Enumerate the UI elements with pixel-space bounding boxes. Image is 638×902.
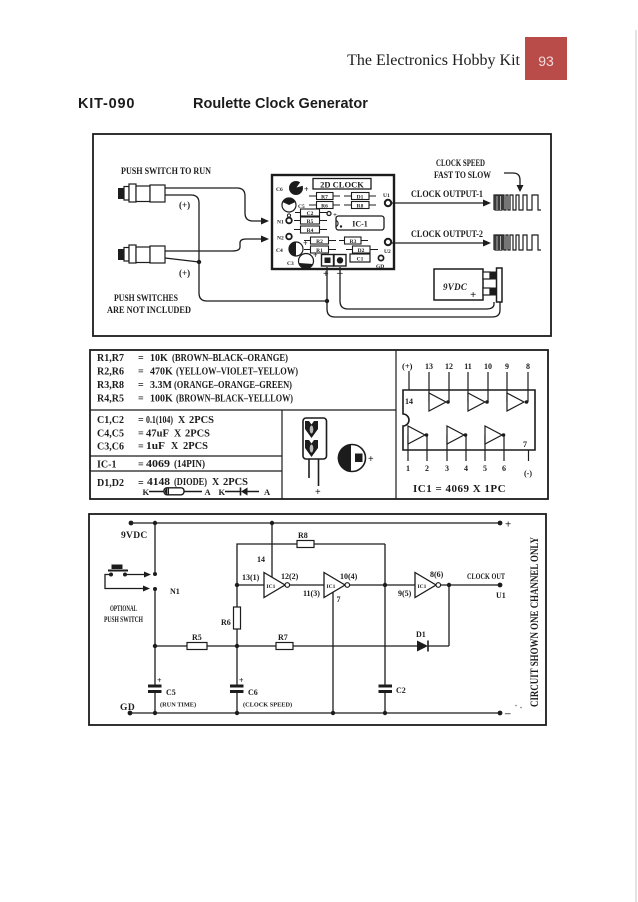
svg-text:=: = — [138, 460, 144, 471]
svg-text:470K: 470K — [150, 367, 173, 378]
svg-text:N2: N2 — [277, 236, 284, 242]
wire U2 to waveform 2 — [391, 240, 491, 247]
node clock out terminal — [467, 572, 506, 600]
wire: SW2 to N2 pad — [165, 239, 261, 251]
wire: SW1 to N1 pad — [165, 188, 261, 221]
svg-text:CLOCK OUTPUT-1: CLOCK OUTPUT-1 — [411, 189, 483, 199]
push switch SW2 — [119, 245, 166, 263]
svg-text:GD: GD — [376, 264, 384, 270]
resistor R6 on PCB — [309, 202, 340, 210]
resistor R7 — [237, 633, 417, 650]
capacitor C6 — [230, 676, 292, 713]
svg-text:8: 8 — [526, 362, 530, 371]
junction ground pin7 — [331, 711, 335, 715]
svg-text:93: 93 — [538, 53, 554, 69]
node ground left terminal — [128, 711, 133, 716]
svg-text:2PCS: 2PCS — [223, 477, 248, 488]
electrolytic capacitor drawing — [303, 418, 327, 498]
wire push button left contact hook arrow — [105, 575, 150, 592]
svg-text:(14PIN): (14PIN) — [174, 459, 205, 470]
svg-text:14: 14 — [405, 397, 413, 406]
junction switch common — [197, 260, 201, 264]
svg-text:3: 3 — [445, 464, 449, 473]
arrowhead into N1 — [261, 218, 269, 225]
parts row C3,C6 — [97, 441, 208, 453]
wire push button right contact arrow — [127, 572, 151, 578]
resistor R8 — [297, 531, 385, 548]
label N1 — [170, 587, 180, 596]
svg-text:11(3): 11(3) — [303, 589, 320, 598]
svg-text:R3: R3 — [350, 239, 357, 245]
wire pin7 ground — [333, 592, 341, 713]
parts row R2,R6 — [97, 367, 298, 378]
svg-text:CLOCK OUT: CLOCK OUT — [467, 572, 506, 581]
resistor R2 on PCB — [304, 237, 336, 245]
svg-text:C3,C6: C3,C6 — [97, 442, 124, 453]
pad U1 — [383, 193, 391, 206]
svg-text:C4,C5: C4,C5 — [97, 429, 124, 440]
wire: plus pad to battery — [327, 267, 500, 317]
battery 9VDC — [434, 269, 490, 301]
figure 3 border — [89, 514, 546, 725]
svg-text:KIT-090: KIT-090 — [78, 96, 135, 112]
wire N1 upper segment — [154, 523, 156, 572]
inverter gate 13-12 — [429, 393, 450, 411]
inverter gate 9-8 — [507, 393, 528, 411]
junction plus pad / switch common — [325, 299, 329, 303]
svg-text:D1,D2: D1,D2 — [97, 478, 124, 489]
svg-text:(BROWN–BLACK–YELLLOW): (BROWN–BLACK–YELLLOW) — [176, 394, 293, 405]
waveform clock output 2 — [494, 235, 541, 250]
minus terminal pad — [334, 255, 346, 267]
svg-text:=: = — [138, 442, 144, 453]
parts row C1,C2 — [97, 415, 214, 426]
diode D1 on PCB — [344, 193, 376, 201]
parts row R1,R7 — [97, 353, 288, 364]
svg-text:R8: R8 — [298, 531, 308, 540]
svg-text:A: A — [264, 487, 271, 497]
junction ground C2 — [383, 711, 387, 715]
PCB board 2D CLOCK — [272, 175, 394, 269]
junction ground C6 — [235, 711, 239, 715]
svg-text:IC-1: IC-1 — [352, 220, 368, 229]
page edge scan artifact — [635, 30, 637, 902]
svg-text:CLOCK SPEED: CLOCK SPEED — [436, 158, 485, 168]
svg-text:3.3M: 3.3M — [150, 380, 173, 391]
inverter gate 11-10 — [468, 393, 489, 411]
inverter gate U1b — [324, 572, 358, 598]
junction N1/R5 — [153, 644, 157, 648]
svg-text:8(6): 8(6) — [430, 570, 444, 579]
svg-text:R4: R4 — [307, 228, 314, 234]
wire U1 to waveform 1 — [391, 200, 491, 207]
svg-text:(BROWN–BLACK–ORANGE): (BROWN–BLACK–ORANGE) — [172, 353, 288, 364]
svg-text:ARE NOT INCLUDED: ARE NOT INCLUDED — [107, 306, 191, 316]
battery clip — [490, 268, 502, 302]
svg-text:OPTIONAL: OPTIONAL — [110, 604, 137, 613]
label optional push switch — [104, 604, 144, 624]
resistor R1 on PCB — [304, 246, 336, 254]
arrow from fast-to-slow to waveform — [504, 173, 520, 185]
svg-text:+: + — [368, 454, 374, 465]
capacitor C5 — [148, 676, 196, 713]
svg-text:X: X — [174, 429, 182, 440]
svg-text:The Electronics Hobby Kit: The Electronics Hobby Kit — [347, 52, 520, 69]
divider lines — [90, 350, 396, 499]
svg-text:C6: C6 — [248, 688, 258, 697]
svg-text:+: + — [157, 676, 162, 685]
svg-text:C6: C6 — [276, 187, 283, 193]
svg-text:2: 2 — [425, 464, 429, 473]
svg-text:R5: R5 — [307, 219, 314, 225]
wire clock out — [441, 584, 500, 586]
wire: SW1 (+) lead down — [165, 195, 326, 301]
svg-text:R6: R6 — [321, 203, 328, 209]
junction feedback/output node — [383, 583, 387, 587]
pinout panel label (+) — [402, 361, 413, 371]
wire D1 to clock out node — [448, 585, 450, 646]
label clock output-2 — [411, 229, 483, 239]
wire C2 branch — [384, 585, 386, 685]
svg-text:=: = — [138, 394, 144, 405]
resistor R7 on PCB — [309, 193, 340, 201]
svg-text:X: X — [178, 415, 186, 426]
svg-text:R7: R7 — [278, 633, 288, 642]
header title — [347, 52, 520, 69]
page number badge — [525, 37, 567, 80]
svg-text:FAST TO SLOW: FAST TO SLOW — [434, 170, 491, 180]
IC 4069 body — [403, 390, 535, 450]
resistor R5 — [155, 633, 237, 650]
svg-text:K: K — [219, 487, 226, 497]
label IC1 = 4069 X 1PC — [413, 483, 506, 495]
label: push switches are not included — [107, 294, 191, 316]
capacitor C4 on PCB — [276, 239, 308, 256]
kit title — [78, 96, 368, 112]
svg-text:10(4): 10(4) — [340, 572, 358, 581]
svg-text:13: 13 — [425, 362, 433, 371]
push switch SW1 — [119, 184, 166, 202]
wire (+) to pin 14 — [408, 371, 410, 390]
svg-text:GD: GD — [120, 703, 135, 713]
svg-text:=: = — [138, 367, 144, 378]
svg-text:(DIODE): (DIODE) — [174, 477, 207, 488]
svg-text:=: = — [138, 429, 144, 440]
svg-text:2PCS: 2PCS — [189, 415, 214, 426]
svg-text:9VDC: 9VDC — [443, 282, 468, 292]
node V+ right terminal — [498, 519, 512, 531]
svg-text:+: + — [313, 251, 318, 260]
svg-text:(-): (-) — [524, 469, 532, 478]
svg-text:C2: C2 — [396, 686, 406, 695]
diode D2 on PCB — [346, 246, 378, 254]
svg-text:N1: N1 — [170, 587, 180, 596]
svg-text:=: = — [138, 415, 144, 426]
svg-text:C1,C2: C1,C2 — [97, 415, 124, 426]
resistor R3 on PCB — [339, 237, 368, 245]
svg-text:Roulette Clock Generator: Roulette Clock Generator — [193, 96, 368, 112]
pad GD — [376, 255, 384, 270]
svg-text:7: 7 — [523, 440, 527, 449]
svg-text:IC1 = 4069 X 1PC: IC1 = 4069 X 1PC — [413, 483, 506, 495]
svg-text:N1: N1 — [277, 220, 284, 226]
svg-text:R8: R8 — [357, 203, 364, 209]
svg-text:11: 11 — [464, 362, 472, 371]
node N1 upper contact — [153, 572, 157, 576]
junction ground C5 — [153, 711, 157, 715]
svg-text:R7: R7 — [321, 194, 328, 200]
IC-1 on PCB — [336, 216, 384, 230]
svg-text:(ORANGE–ORANGE–GREEN): (ORANGE–ORANGE–GREEN) — [174, 380, 292, 391]
pad N1 — [277, 218, 292, 226]
pad N2 — [277, 234, 292, 242]
svg-text:+: + — [323, 269, 329, 280]
junction input node gate1 — [235, 583, 239, 587]
svg-text:D1: D1 — [357, 194, 364, 200]
label clock speed fast to slow — [434, 158, 491, 180]
svg-text:6: 6 — [502, 464, 506, 473]
svg-text:2PCS: 2PCS — [183, 441, 208, 452]
parts row C4,C5 — [97, 429, 210, 440]
capacitor C1 on PCB — [350, 254, 370, 263]
diode D1 — [416, 630, 449, 652]
junction clock out / D1 — [447, 583, 451, 587]
top pin labels — [425, 362, 530, 371]
inverter gate 5-6 — [485, 426, 505, 444]
svg-text:R5: R5 — [192, 633, 202, 642]
svg-text:IC1: IC1 — [267, 584, 276, 590]
scan speck — [515, 705, 522, 709]
svg-text:U1: U1 — [496, 591, 506, 600]
svg-text:C3: C3 — [287, 261, 294, 267]
svg-text:=: = — [138, 380, 144, 391]
svg-text:PUSH SWITCH: PUSH SWITCH — [104, 615, 144, 624]
svg-text:9: 9 — [505, 362, 509, 371]
svg-text:+: + — [470, 289, 476, 301]
svg-text:R1,R7: R1,R7 — [97, 353, 124, 364]
node V+ left terminal — [129, 521, 134, 526]
waveform clock output 1 — [494, 195, 541, 210]
junction R5/R6/R7/C6 — [235, 644, 239, 648]
parts row R4,R5 — [97, 394, 293, 405]
svg-text:47uF: 47uF — [146, 429, 169, 440]
label circuit shown one channel only — [527, 537, 541, 707]
svg-text:100K: 100K — [150, 394, 173, 405]
node N1 lower contact — [153, 587, 157, 591]
diode legend symbol 1 — [143, 487, 212, 497]
svg-text:IC1: IC1 — [418, 584, 427, 590]
arrowhead into N2 — [261, 236, 269, 243]
svg-text:(YELLOW–VIOLET–YELLOW): (YELLOW–VIOLET–YELLOW) — [176, 367, 298, 378]
label GD — [120, 703, 135, 713]
label clock output-1 — [411, 189, 483, 199]
svg-text:R2: R2 — [316, 239, 323, 245]
parts row R3,R8 — [97, 380, 292, 391]
PCB title box — [313, 179, 371, 190]
svg-text:R6: R6 — [221, 618, 231, 627]
inverter gate 3-4 — [447, 426, 467, 444]
svg-text:(CLOCK SPEED): (CLOCK SPEED) — [243, 702, 292, 709]
wire N1 lower segment — [154, 590, 156, 685]
junction rail to pin14 — [270, 521, 274, 525]
capacitor C2 on PCB — [295, 209, 327, 217]
svg-text:C5: C5 — [166, 688, 176, 697]
pad plus small — [327, 211, 337, 219]
svg-text:D1: D1 — [416, 630, 426, 639]
svg-text:2PCS: 2PCS — [185, 429, 210, 440]
inverter gate U1c — [398, 570, 444, 598]
junction rail to N1 — [153, 521, 157, 525]
svg-text:C4: C4 — [276, 248, 283, 254]
svg-text:14: 14 — [257, 555, 265, 564]
inverter gate U1a — [264, 572, 299, 598]
wire gate2 out to gate3 in — [350, 584, 415, 586]
figure 2 border — [90, 350, 548, 499]
figure 1 border — [93, 134, 551, 336]
svg-text:+: + — [304, 185, 309, 194]
wire input gate1 — [237, 573, 264, 585]
label: push switch to run — [121, 167, 211, 177]
svg-text:1uF: 1uF — [146, 441, 165, 452]
svg-text:–: – — [504, 708, 511, 720]
label (+) switch 2 — [179, 268, 190, 278]
wire: SW2 (+) lead to junction — [165, 258, 199, 262]
top pin leads — [429, 372, 528, 402]
inverter gate 1-2 — [408, 426, 428, 444]
svg-text:4148: 4148 — [147, 477, 170, 488]
resistor R4 on PCB — [294, 226, 327, 234]
svg-text:2D CLOCK: 2D CLOCK — [320, 179, 364, 189]
wire feedback right vertical — [384, 544, 386, 585]
svg-text:K: K — [143, 487, 150, 497]
svg-text:7: 7 — [337, 595, 341, 604]
capacitor C5 on PCB — [282, 198, 305, 218]
wire ground rail — [130, 712, 500, 714]
label 9VDC — [121, 531, 148, 541]
resistor R8 on PCB — [344, 202, 376, 210]
capacitor top view — [338, 445, 374, 472]
svg-text:(+): (+) — [179, 268, 190, 278]
svg-text:R4,R5: R4,R5 — [97, 394, 124, 405]
diode legend symbol 2 — [219, 487, 272, 497]
wire V+ rail — [131, 522, 500, 524]
svg-text:A: A — [205, 487, 212, 497]
svg-text:5: 5 — [483, 464, 487, 473]
svg-text:PUSH SWITCH TO RUN: PUSH SWITCH TO RUN — [121, 167, 211, 177]
wire pin14 supply — [257, 523, 272, 577]
svg-text:4069: 4069 — [146, 459, 170, 470]
svg-text:=: = — [138, 353, 144, 364]
wire: minus pad to battery — [340, 267, 494, 309]
svg-text:13(1): 13(1) — [242, 573, 260, 582]
bottom pin leads — [408, 435, 529, 461]
svg-text:U2: U2 — [384, 249, 391, 255]
svg-text:C2: C2 — [307, 211, 314, 217]
svg-text:1: 1 — [406, 464, 410, 473]
wire gate1 out to gate2 in — [290, 585, 324, 598]
parts row IC-1 — [97, 459, 205, 471]
svg-text:R2,R6: R2,R6 — [97, 367, 124, 378]
svg-text:10K: 10K — [150, 353, 168, 364]
capacitor C2 — [379, 685, 406, 714]
svg-text:D2: D2 — [358, 248, 365, 254]
plus minus marks under board — [323, 267, 343, 280]
parts row D1,D2 — [97, 477, 248, 489]
svg-text:9VDC: 9VDC — [121, 531, 148, 541]
svg-text:U1: U1 — [383, 193, 390, 199]
svg-text:9(5): 9(5) — [398, 589, 412, 598]
wire C6 branch — [236, 646, 238, 685]
label (+) switch 1 — [179, 200, 190, 210]
capacitor C3 on PCB — [287, 251, 318, 269]
svg-text:(RUN TIME): (RUN TIME) — [160, 702, 196, 709]
svg-text:C1: C1 — [357, 257, 364, 263]
svg-text:4: 4 — [464, 464, 468, 473]
svg-text:X: X — [171, 441, 179, 452]
svg-text:IC-1: IC-1 — [97, 460, 116, 471]
node ground right terminal — [498, 708, 511, 720]
pad U2 — [384, 239, 391, 255]
svg-text:(+): (+) — [179, 200, 190, 210]
svg-text:IC1: IC1 — [327, 584, 336, 590]
svg-text:PUSH SWITCHES: PUSH SWITCHES — [114, 294, 178, 304]
svg-text:10: 10 — [484, 362, 492, 371]
svg-text:(+): (+) — [402, 361, 413, 371]
svg-text:0.1(104): 0.1(104) — [146, 415, 173, 426]
bottom pin labels — [406, 464, 532, 478]
push button symbol — [108, 565, 128, 577]
svg-text:R3,R8: R3,R8 — [97, 380, 124, 391]
capacitor C6 on PCB — [276, 181, 309, 195]
svg-text:+: + — [239, 676, 244, 685]
svg-text:+: + — [505, 519, 511, 531]
svg-text:+: + — [315, 487, 321, 498]
resistor R6 — [221, 585, 241, 646]
svg-text:12(2): 12(2) — [281, 572, 299, 581]
resistor R5 on PCB — [294, 217, 327, 225]
plus terminal pad — [322, 255, 334, 267]
svg-text:12: 12 — [445, 362, 453, 371]
svg-text:CIRCUIT SHOWN ONE CHANNEL ONLY: CIRCUIT SHOWN ONE CHANNEL ONLY — [527, 537, 541, 707]
svg-text:CLOCK OUTPUT-2: CLOCK OUTPUT-2 — [411, 229, 483, 239]
wire feedback left vertical — [237, 544, 297, 585]
